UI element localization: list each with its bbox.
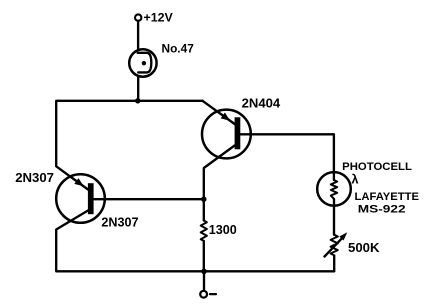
svg-text:LAFAYETTE: LAFAYETTE [355, 191, 420, 203]
svg-text:2N307: 2N307 [15, 170, 54, 185]
svg-text:1300: 1300 [209, 223, 237, 237]
svg-text:MS-922: MS-922 [358, 204, 406, 216]
svg-text:No.47: No.47 [162, 42, 194, 55]
svg-text:2N307: 2N307 [101, 215, 138, 229]
svg-text:2N404: 2N404 [242, 96, 281, 111]
svg-text:500K: 500K [348, 240, 380, 255]
svg-text:+12V: +12V [144, 11, 174, 25]
svg-text:λ: λ [351, 172, 358, 187]
